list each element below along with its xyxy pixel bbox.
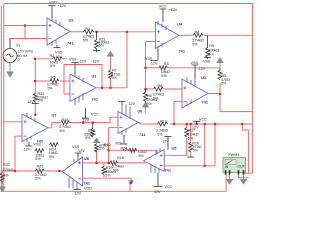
svg-text:-12V: -12V (198, 67, 206, 71)
svg-text:5%: 5% (193, 148, 199, 152)
svg-text:R9: R9 (209, 44, 214, 48)
svg-text:U1: U1 (92, 74, 98, 79)
svg-text:U4: U4 (177, 22, 183, 27)
svg-text:12V: 12V (192, 126, 199, 130)
svg-text:-12V: -12V (23, 147, 31, 151)
svg-text:V1: V1 (16, 44, 21, 48)
svg-text:R3: R3 (164, 62, 169, 66)
svg-text:VCC: VCC (91, 113, 99, 117)
svg-text:VSS: VSS (191, 61, 199, 65)
svg-text:5%: 5% (83, 39, 89, 43)
svg-text:741: 741 (179, 49, 186, 54)
svg-text:XWM1: XWM1 (228, 153, 239, 157)
svg-text:5%: 5% (161, 74, 167, 78)
svg-text:12V: 12V (75, 192, 82, 196)
svg-text:R18: R18 (117, 156, 124, 160)
svg-text:5%: 5% (49, 155, 55, 159)
svg-text:5%: 5% (192, 43, 198, 47)
svg-text:741: 741 (165, 168, 172, 173)
svg-text:R22: R22 (3, 163, 10, 167)
svg-text:R4: R4 (195, 31, 200, 35)
svg-text:VSS: VSS (203, 60, 211, 64)
svg-text:741: 741 (67, 41, 74, 46)
svg-text:5%: 5% (48, 87, 54, 91)
svg-text:5%: 5% (38, 99, 44, 103)
svg-text:5%: 5% (60, 129, 66, 133)
svg-text:0°: 0° (18, 58, 22, 62)
svg-text:U7: U7 (52, 113, 57, 118)
svg-text:5%: 5% (157, 133, 163, 137)
svg-text:R5: R5 (51, 76, 56, 80)
svg-text:12V: 12V (129, 102, 136, 106)
svg-text:741: 741 (139, 132, 146, 137)
svg-text:+12V: +12V (169, 8, 178, 12)
svg-text:U6: U6 (138, 109, 144, 114)
svg-text:5%: 5% (188, 136, 194, 140)
svg-text:VSS: VSS (115, 142, 123, 146)
svg-text:R21: R21 (37, 165, 44, 169)
svg-text:U8: U8 (129, 179, 135, 184)
svg-text:VSS: VSS (34, 143, 42, 147)
svg-text:VCC: VCC (165, 185, 173, 189)
svg-text:5%: 5% (112, 76, 118, 80)
svg-text:U8: U8 (84, 156, 90, 161)
svg-text:OUT: OUT (238, 165, 245, 169)
svg-text:VDD: VDD (84, 187, 92, 191)
svg-text:+12V: +12V (58, 4, 67, 8)
svg-text:VDD: VDD (49, 0, 57, 4)
svg-text:5%: 5% (153, 96, 159, 100)
svg-text:5%: 5% (105, 173, 111, 177)
svg-text:12V: 12V (154, 190, 161, 194)
svg-text:5%: 5% (139, 154, 145, 158)
svg-text:741: 741 (92, 97, 99, 102)
svg-text:-12V: -12V (78, 60, 86, 64)
svg-text:5%: 5% (35, 157, 41, 161)
svg-text:-12V: -12V (150, 61, 158, 65)
svg-text:5%: 5% (208, 53, 214, 57)
svg-text:-12V: -12V (92, 60, 100, 64)
svg-text:220kΩ: 220kΩ (3, 168, 14, 172)
svg-text:741: 741 (202, 100, 209, 105)
svg-text:R15: R15 (62, 118, 69, 122)
svg-text:U3: U3 (201, 75, 207, 80)
svg-text:5%: 5% (99, 43, 105, 47)
svg-text:12V: 12V (83, 118, 90, 122)
svg-text:R1: R1 (86, 27, 91, 31)
svg-text:5%: 5% (99, 146, 105, 150)
svg-text:R13: R13 (160, 119, 167, 123)
svg-text:U2: U2 (69, 18, 75, 23)
svg-text:5%: 5% (35, 177, 41, 181)
svg-text:5%: 5% (50, 64, 56, 68)
svg-text:R6: R6 (158, 84, 163, 88)
svg-text:-12V: -12V (54, 55, 62, 59)
svg-text:5%: 5% (3, 173, 9, 177)
svg-text:-12V: -12V (161, 139, 169, 143)
svg-text:5%: 5% (221, 82, 227, 86)
svg-text:IN: IN (225, 165, 229, 169)
svg-text:VSS: VSS (69, 57, 77, 61)
svg-text:12V: 12V (27, 100, 34, 104)
svg-text:VCC: VCC (199, 118, 207, 122)
svg-text:VCC: VCC (159, 4, 167, 8)
svg-text:741: 741 (84, 181, 91, 186)
svg-text:U5: U5 (172, 146, 178, 151)
svg-text:5%: 5% (85, 136, 91, 140)
svg-text:-12V: -12V (122, 148, 130, 152)
svg-text:-12V: -12V (77, 149, 85, 153)
